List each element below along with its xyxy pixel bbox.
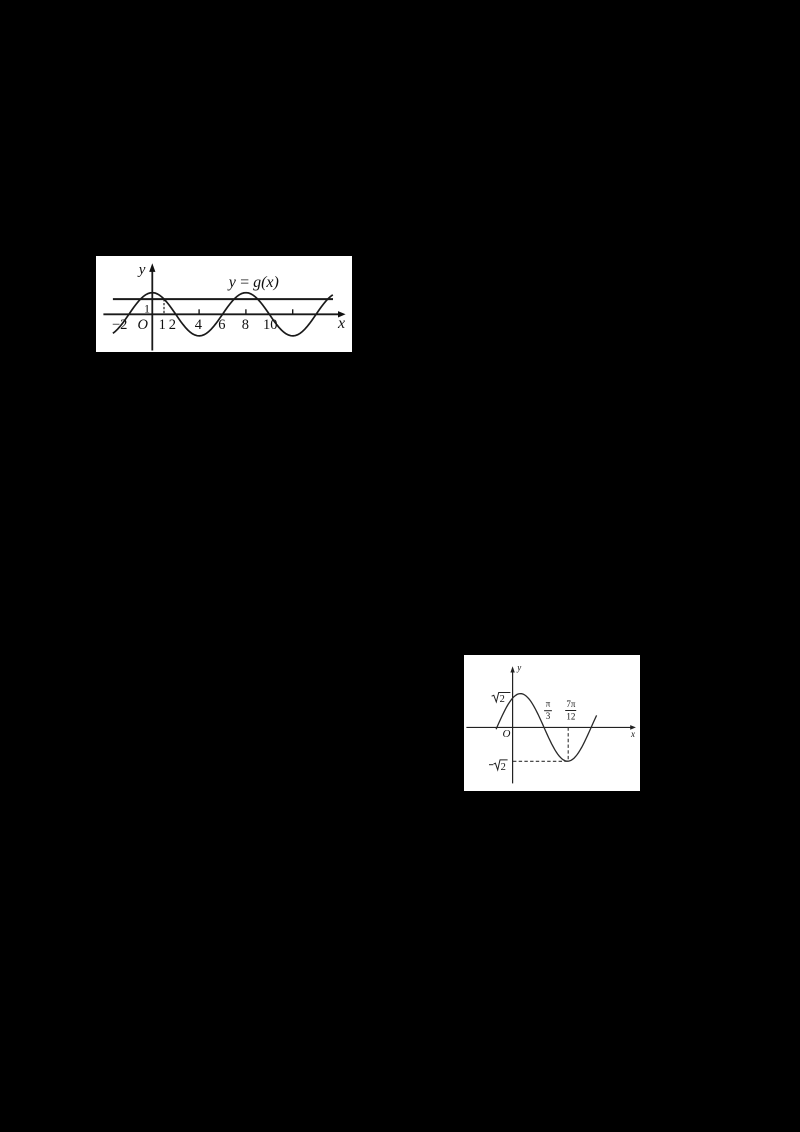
svg-text:1: 1 [159, 317, 166, 333]
figure panel 2: graph of f(x) with sqrt(2) markings [464, 655, 640, 791]
svg-text:x: x [630, 729, 635, 739]
label -sqrt2 minus [489, 764, 493, 766]
horizontal line y=1 [113, 298, 333, 300]
tick x=8 [245, 309, 247, 314]
svg-text:1: 1 [144, 301, 150, 315]
dashed vertical at 7pi/12 [567, 727, 569, 760]
svg-text:O: O [138, 317, 149, 333]
label 7pi/12 bar [565, 710, 576, 712]
curve y=g(x) [113, 293, 333, 336]
tick x=12 [292, 309, 294, 314]
svg-text:y = g(x): y = g(x) [227, 274, 279, 291]
y-axis [151, 268, 153, 351]
svg-text:6: 6 [218, 317, 225, 333]
x-axis arrowhead [338, 311, 346, 317]
figure panel 1: graph of y=g(x) [96, 256, 352, 352]
svg-text:8: 8 [242, 317, 249, 333]
svg-text:y: y [137, 262, 146, 278]
svg-text:2: 2 [169, 317, 176, 333]
svg-text:−2: −2 [112, 317, 127, 333]
dashed line x=1 [163, 299, 165, 314]
label sqrt2 radical [492, 693, 511, 703]
y-axis [512, 670, 514, 784]
svg-text:10: 10 [263, 317, 278, 333]
x-axis [466, 726, 632, 728]
label pi/3 bar [544, 710, 552, 712]
svg-text:π: π [546, 699, 551, 709]
svg-text:7π: 7π [566, 699, 576, 709]
svg-text:12: 12 [566, 711, 575, 721]
svg-text:4: 4 [195, 317, 203, 333]
tick x=4 [198, 309, 200, 314]
svg-text:2: 2 [501, 762, 506, 773]
x-axis [103, 313, 339, 315]
svg-text:2: 2 [500, 694, 505, 705]
y-axis arrowhead [510, 666, 514, 672]
svg-text:O: O [503, 728, 511, 740]
curve f(x) [496, 694, 596, 762]
svg-text:x: x [337, 315, 345, 332]
svg-text:3: 3 [546, 711, 551, 721]
x-axis arrowhead [630, 725, 636, 730]
svg-text:y: y [516, 663, 521, 673]
label -sqrt2 radical [494, 760, 508, 770]
dashed horizontal at -sqrt2 [513, 760, 568, 762]
y-axis arrowhead [149, 263, 155, 272]
